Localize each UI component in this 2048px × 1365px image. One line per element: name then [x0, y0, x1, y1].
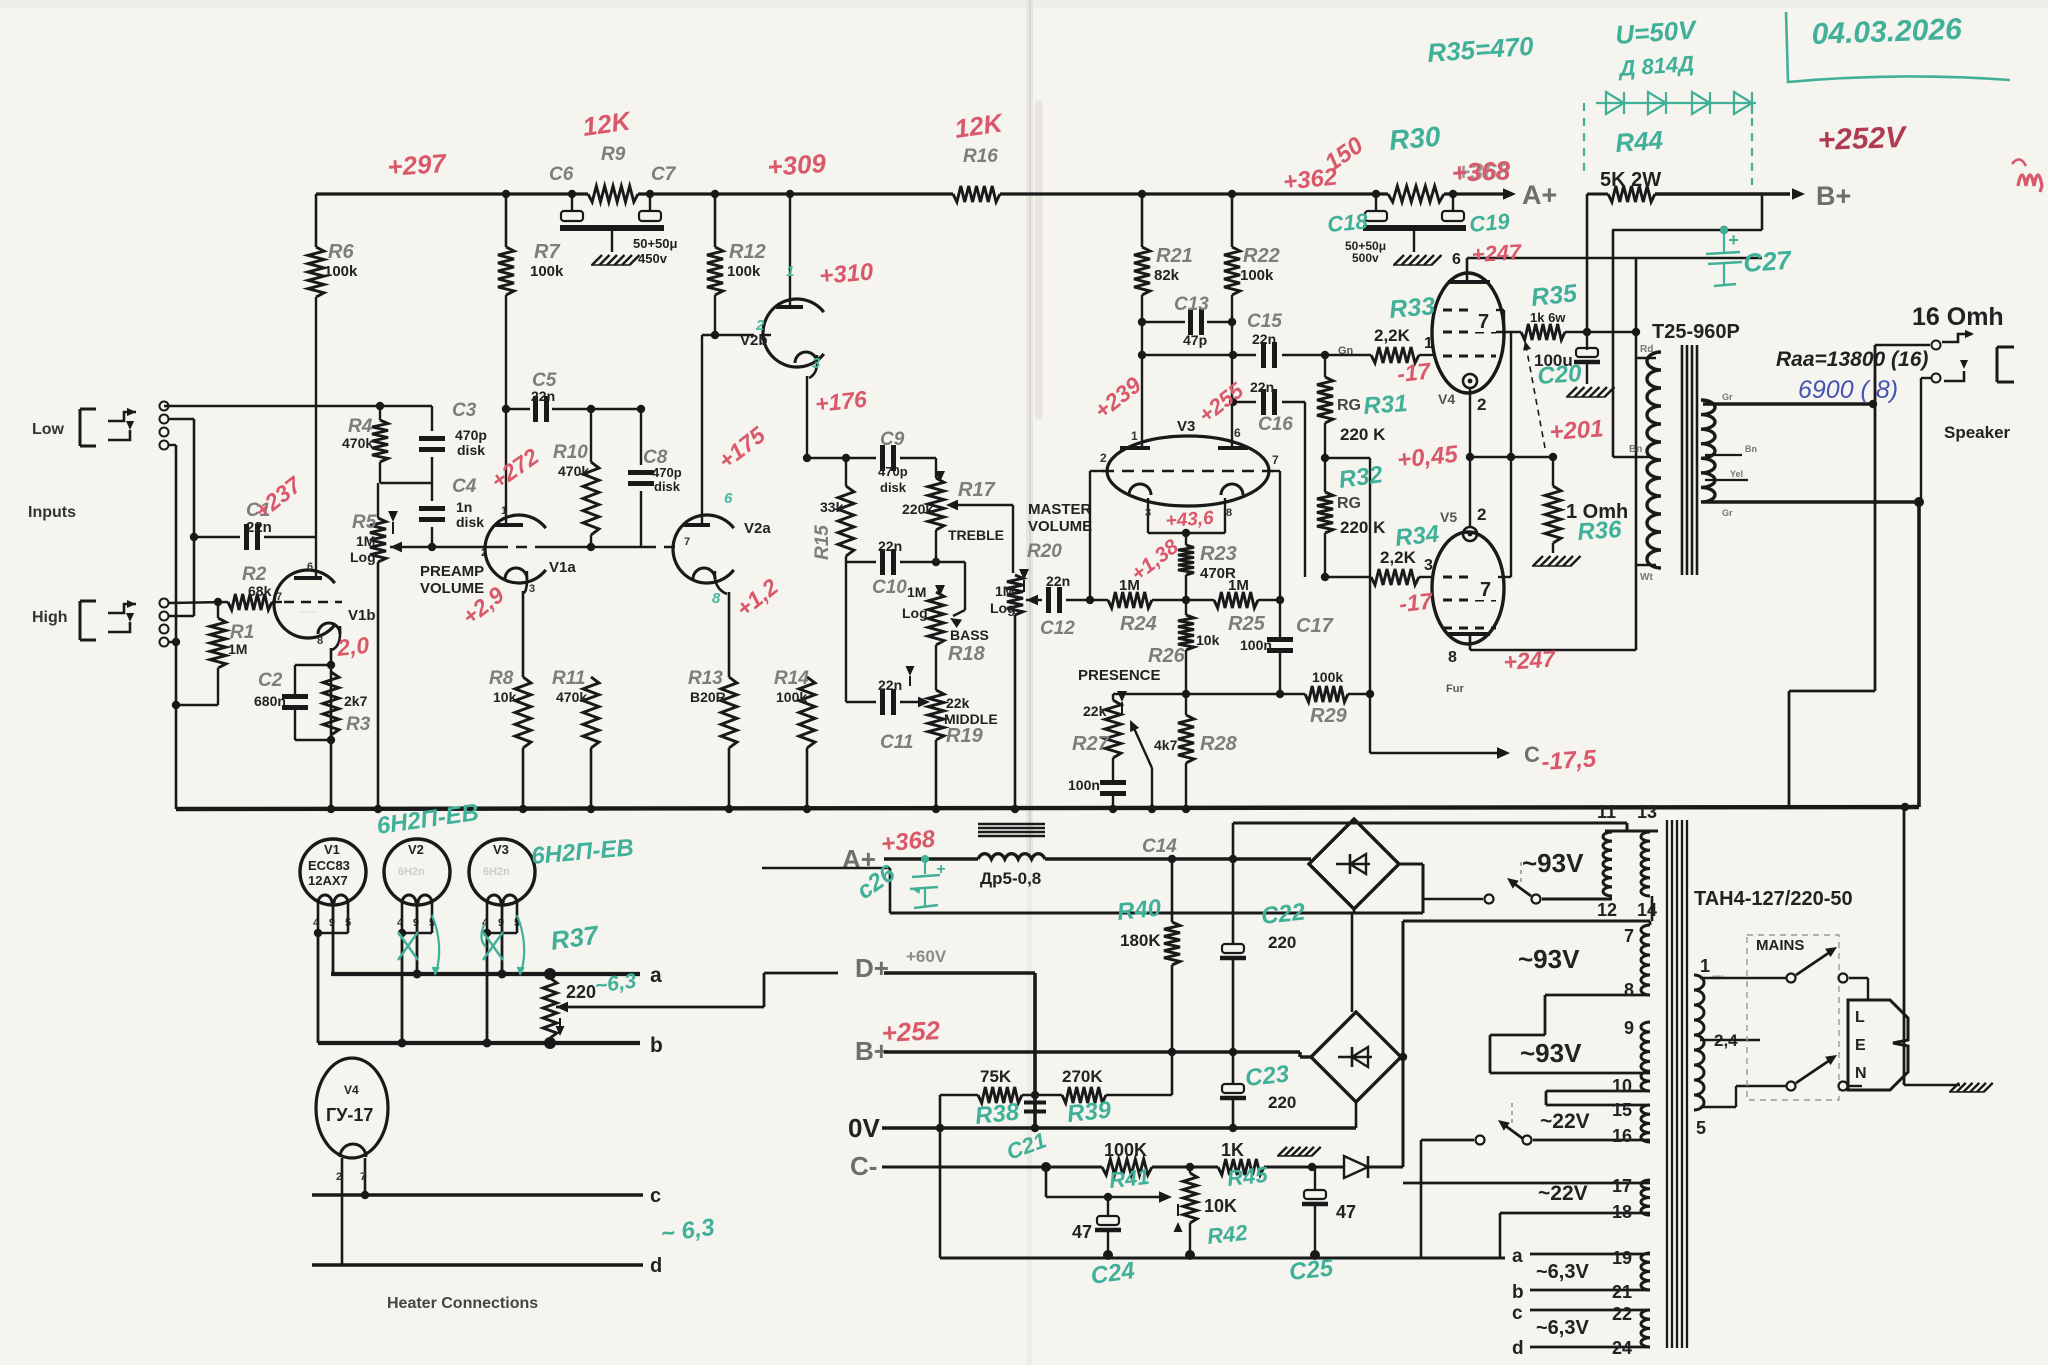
svg-text:22: 22	[1612, 1304, 1632, 1324]
svg-text:Speaker: Speaker	[1944, 423, 2011, 442]
svg-text:R17: R17	[958, 479, 996, 501]
svg-text:-17: -17	[1396, 358, 1433, 387]
svg-text:450v: 450v	[638, 251, 668, 266]
svg-text:PRESENCE: PRESENCE	[1078, 667, 1161, 684]
svg-text:MASTER: MASTER	[1028, 501, 1092, 518]
svg-text:22n: 22n	[1250, 379, 1274, 395]
svg-text:0V: 0V	[848, 1113, 880, 1143]
svg-text:Wt: Wt	[1640, 572, 1653, 583]
svg-text:22n: 22n	[1252, 331, 1276, 347]
svg-text:3: 3	[1424, 557, 1433, 574]
svg-text:22n: 22n	[1046, 573, 1070, 589]
svg-text:A+: A+	[1522, 180, 1557, 210]
svg-text:16: 16	[1612, 1126, 1632, 1146]
svg-text:1M: 1M	[995, 583, 1014, 599]
svg-text:+247: +247	[1471, 239, 1524, 267]
svg-text:24: 24	[1612, 1338, 1632, 1358]
svg-text:2: 2	[1477, 505, 1486, 524]
svg-text:C16: C16	[1258, 414, 1293, 435]
svg-text:100k: 100k	[324, 263, 358, 280]
svg-text:2,2K: 2,2K	[1374, 326, 1411, 345]
svg-text:R41: R41	[1108, 1164, 1151, 1193]
svg-text:R13: R13	[688, 668, 723, 689]
svg-text:R8: R8	[489, 668, 514, 689]
svg-text:100k: 100k	[1240, 267, 1274, 284]
svg-text:50+50μ: 50+50μ	[633, 236, 678, 251]
svg-text:R42: R42	[1206, 1220, 1250, 1249]
svg-text:1n: 1n	[456, 499, 472, 515]
svg-text:Raa=13800 (16): Raa=13800 (16)	[1776, 348, 1928, 371]
svg-text:-17: -17	[1398, 588, 1435, 617]
svg-text:11: 11	[1597, 802, 1616, 822]
svg-text:+297: +297	[386, 148, 448, 182]
svg-text:+201: +201	[1549, 415, 1605, 446]
svg-text:Gr: Gr	[1722, 508, 1733, 518]
svg-text:R2: R2	[242, 564, 267, 585]
svg-text:TAH4-127/220-50: TAH4-127/220-50	[1694, 888, 1853, 910]
svg-text:Др5-0,8: Др5-0,8	[980, 869, 1041, 888]
svg-text:C2: C2	[258, 670, 283, 691]
svg-text:75K: 75K	[980, 1067, 1012, 1086]
svg-text:V2: V2	[408, 842, 424, 857]
svg-text:V4: V4	[344, 1083, 359, 1097]
svg-text:19: 19	[1612, 1248, 1632, 1268]
svg-text:Д 814Д: Д 814Д	[1617, 51, 1695, 81]
svg-text:~93V: ~93V	[1522, 848, 1584, 878]
svg-text:C25: C25	[1288, 1254, 1335, 1286]
svg-text:C23: C23	[1244, 1060, 1291, 1092]
svg-text:8: 8	[317, 635, 323, 647]
svg-text:B+: B+	[1816, 181, 1851, 211]
svg-text:C12: C12	[1040, 618, 1075, 639]
svg-text:V1a: V1a	[549, 559, 576, 576]
svg-text:PREAMP: PREAMP	[420, 563, 484, 580]
svg-text:6: 6	[307, 561, 313, 573]
svg-text:2: 2	[336, 1171, 342, 1183]
svg-text:C: C	[1524, 742, 1540, 767]
svg-text:100k: 100k	[776, 689, 807, 705]
svg-text:6900 ( 8): 6900 ( 8)	[1798, 376, 1898, 404]
svg-text:C22: C22	[1260, 898, 1307, 930]
svg-text:1M: 1M	[356, 533, 375, 549]
svg-text:Fur: Fur	[1446, 683, 1464, 695]
svg-text:C17: C17	[1296, 615, 1334, 637]
svg-text:C27: C27	[1742, 245, 1793, 278]
svg-text:5K 2W: 5K 2W	[1600, 169, 1661, 191]
svg-text:22k: 22k	[946, 695, 970, 711]
svg-text:2: 2	[1100, 451, 1107, 465]
svg-text:C4: C4	[452, 476, 477, 497]
svg-text:+309: +309	[766, 148, 827, 182]
svg-text:d: d	[650, 1255, 662, 1277]
svg-text:+43,6: +43,6	[1165, 508, 1215, 532]
svg-text:+60V: +60V	[906, 947, 947, 966]
svg-text:C20: C20	[1537, 360, 1583, 390]
svg-text:C9: C9	[880, 429, 905, 450]
svg-text:R44: R44	[1614, 125, 1664, 158]
svg-text:17: 17	[1612, 1176, 1632, 1196]
svg-text:R24: R24	[1120, 613, 1157, 635]
svg-text:47: 47	[1072, 1222, 1092, 1242]
svg-text:BASS: BASS	[950, 627, 989, 643]
svg-text:13: 13	[1637, 802, 1657, 822]
svg-text:RG: RG	[1337, 397, 1361, 414]
svg-text:Log: Log	[902, 605, 928, 621]
svg-text:8: 8	[1448, 649, 1457, 666]
svg-text:C13: C13	[1174, 294, 1209, 315]
svg-text:R33: R33	[1388, 292, 1436, 324]
svg-text:R30: R30	[1388, 121, 1442, 156]
svg-text:R1: R1	[230, 622, 254, 643]
svg-text:R25: R25	[1228, 613, 1266, 635]
svg-text:D+: D+	[855, 953, 889, 983]
svg-text:+368: +368	[1451, 155, 1512, 188]
svg-text:R23: R23	[1200, 543, 1237, 565]
svg-text:22n: 22n	[531, 388, 555, 404]
svg-text:R20: R20	[1027, 541, 1062, 562]
svg-text:R29: R29	[1310, 705, 1348, 727]
svg-text:R10: R10	[553, 442, 588, 463]
svg-text:100n: 100n	[1240, 637, 1272, 653]
svg-text:470k: 470k	[558, 463, 589, 479]
svg-text:220 K: 220 K	[1340, 518, 1386, 537]
svg-text:470p: 470p	[652, 465, 682, 480]
svg-text:1M: 1M	[1228, 577, 1249, 594]
svg-text:R45: R45	[1226, 1162, 1270, 1191]
svg-text:6: 6	[1452, 251, 1461, 268]
svg-text:220: 220	[566, 982, 596, 1002]
svg-text:+: +	[936, 861, 945, 878]
svg-text:3: 3	[529, 583, 535, 595]
svg-text:6: 6	[724, 490, 733, 507]
svg-text:T25-960P: T25-960P	[1652, 321, 1740, 343]
svg-text:12: 12	[1597, 900, 1617, 920]
svg-text:disk: disk	[457, 442, 485, 458]
svg-text:disk: disk	[880, 480, 907, 495]
svg-text:C10: C10	[872, 577, 907, 598]
svg-text:C6: C6	[549, 164, 574, 185]
svg-text:R15: R15	[812, 525, 833, 560]
svg-text:B20R: B20R	[690, 689, 726, 705]
svg-text:R31: R31	[1363, 390, 1409, 420]
svg-text:Gr: Gr	[1722, 392, 1733, 402]
svg-text:68k: 68k	[248, 583, 272, 599]
svg-text:1K: 1K	[1221, 1140, 1244, 1160]
svg-text:R39: R39	[1066, 1096, 1113, 1128]
svg-text:47p: 47p	[1183, 332, 1207, 348]
svg-text:6H2n: 6H2n	[398, 866, 425, 878]
svg-text:V3: V3	[493, 842, 509, 857]
svg-text:RG: RG	[1337, 495, 1361, 512]
svg-text:Heater Connections: Heater Connections	[387, 1295, 538, 1312]
svg-text:R9: R9	[601, 144, 626, 165]
svg-text:470k: 470k	[556, 689, 587, 705]
svg-text:R27: R27	[1072, 733, 1110, 755]
svg-text:R19: R19	[946, 725, 984, 747]
svg-text:15: 15	[1612, 1100, 1632, 1120]
svg-text:22n: 22n	[878, 538, 902, 554]
svg-text:disk: disk	[456, 514, 484, 530]
svg-text:+368: +368	[880, 825, 937, 858]
svg-text:1M: 1M	[228, 641, 247, 657]
svg-text:7: 7	[276, 591, 282, 603]
svg-text:470p: 470p	[878, 464, 908, 479]
svg-text:R3: R3	[346, 714, 371, 735]
svg-text:R14: R14	[774, 668, 809, 689]
svg-text:V2b: V2b	[740, 332, 768, 349]
svg-text:TREBLE: TREBLE	[948, 527, 1004, 543]
svg-text:V1: V1	[324, 842, 340, 857]
svg-text:10: 10	[1612, 1076, 1632, 1096]
svg-text:R36: R36	[1577, 516, 1623, 546]
svg-text:7: 7	[1624, 926, 1634, 946]
svg-text:2: 2	[755, 317, 765, 334]
svg-text:R40: R40	[1116, 894, 1163, 926]
svg-text:R4: R4	[348, 416, 373, 437]
svg-text:680n: 680n	[254, 693, 286, 709]
svg-text:V4: V4	[1438, 391, 1455, 407]
svg-text:R11: R11	[552, 668, 585, 689]
svg-text:1: 1	[786, 263, 794, 280]
svg-text:100k: 100k	[530, 263, 564, 280]
svg-text:6H2n: 6H2n	[483, 866, 510, 878]
svg-text:d: d	[1512, 1338, 1524, 1359]
svg-text:220k: 220k	[902, 501, 933, 517]
svg-text:04.03.2026: 04.03.2026	[1811, 13, 1963, 51]
svg-text:C19: C19	[1468, 208, 1511, 236]
svg-text:+310: +310	[818, 258, 875, 290]
svg-text:7: 7	[684, 536, 690, 548]
svg-text:C18: C18	[1326, 208, 1369, 236]
svg-text:2: 2	[1477, 395, 1486, 414]
svg-text:C-: C-	[850, 1151, 877, 1181]
svg-text:Bn: Bn	[1629, 444, 1642, 455]
svg-text:180K: 180K	[1120, 931, 1161, 950]
svg-text:16 Omh: 16 Omh	[1912, 303, 2004, 331]
svg-text:U=50V: U=50V	[1614, 14, 1699, 50]
svg-text:C7: C7	[651, 164, 677, 185]
svg-text:C14: C14	[1142, 836, 1177, 857]
svg-text:3: 3	[1145, 507, 1151, 519]
svg-text:4k7: 4k7	[1154, 737, 1178, 753]
svg-text:100n: 100n	[1068, 777, 1100, 793]
svg-text:100k: 100k	[1312, 669, 1343, 685]
svg-text:+247: +247	[1503, 645, 1558, 675]
svg-text:disk: disk	[654, 479, 681, 494]
svg-text:R38: R38	[974, 1098, 1021, 1130]
svg-text:8: 8	[1624, 980, 1634, 1000]
svg-text:470k: 470k	[342, 435, 373, 451]
svg-text:22n: 22n	[878, 677, 902, 693]
svg-text:a: a	[1512, 1246, 1523, 1267]
svg-text:12AX7: 12AX7	[308, 873, 348, 888]
svg-text:1: 1	[501, 505, 507, 517]
svg-text:220: 220	[1268, 1093, 1296, 1112]
svg-text:9: 9	[1624, 1018, 1634, 1038]
svg-text:7: 7	[360, 1171, 366, 1183]
svg-text:R28: R28	[1200, 733, 1238, 755]
svg-text:220: 220	[1268, 933, 1296, 952]
svg-text:~22V: ~22V	[1540, 1110, 1590, 1133]
svg-text:2k7: 2k7	[344, 693, 368, 709]
svg-text:R5: R5	[352, 512, 377, 533]
svg-text:MAINS: MAINS	[1756, 937, 1804, 954]
svg-text:+: +	[1728, 230, 1739, 250]
svg-text:C11: C11	[880, 732, 913, 753]
svg-text:R7: R7	[534, 241, 560, 263]
svg-text:21: 21	[1612, 1282, 1632, 1302]
svg-text:High: High	[32, 609, 68, 626]
svg-text:R22: R22	[1243, 245, 1280, 267]
svg-text:ГУ-17: ГУ-17	[326, 1105, 373, 1125]
svg-text:a: a	[650, 964, 662, 987]
svg-text:8: 8	[1226, 507, 1232, 519]
svg-text:6: 6	[1234, 426, 1241, 440]
svg-text:1k 6w: 1k 6w	[1530, 310, 1566, 325]
svg-text:R21: R21	[1156, 245, 1193, 267]
svg-text:b: b	[1512, 1282, 1524, 1303]
svg-text:8: 8	[712, 590, 721, 607]
svg-text:10K: 10K	[1204, 1196, 1237, 1216]
svg-text:3: 3	[812, 355, 821, 372]
svg-text:VOLUME: VOLUME	[420, 580, 484, 597]
svg-text:7: 7	[1272, 453, 1279, 467]
svg-text:+252V: +252V	[1817, 121, 1909, 157]
svg-text:R6: R6	[328, 241, 354, 263]
svg-text:V2a: V2a	[744, 520, 771, 537]
svg-text:Yel: Yel	[1730, 469, 1743, 479]
svg-text:1: 1	[1131, 429, 1138, 443]
svg-text:100k: 100k	[727, 263, 761, 280]
svg-text:220 K: 220 K	[1340, 425, 1386, 444]
svg-text:ECC83: ECC83	[308, 858, 350, 873]
svg-text:Log: Log	[990, 600, 1016, 616]
svg-text:R35: R35	[1530, 279, 1580, 312]
svg-text:R18: R18	[948, 643, 986, 665]
svg-text:10k: 10k	[493, 689, 517, 705]
svg-text:VOLUME: VOLUME	[1028, 518, 1092, 535]
svg-text:C3: C3	[452, 400, 477, 421]
svg-text:V3: V3	[1177, 418, 1195, 435]
svg-text:-17,5: -17,5	[1541, 745, 1598, 776]
svg-text:R34: R34	[1394, 521, 1441, 552]
svg-text:500v: 500v	[1352, 251, 1379, 265]
svg-text:47: 47	[1336, 1202, 1356, 1222]
svg-text:270K: 270K	[1062, 1067, 1103, 1086]
svg-text:+176: +176	[814, 386, 868, 417]
svg-text:~93V: ~93V	[1520, 1038, 1582, 1068]
svg-text:14: 14	[1637, 900, 1657, 920]
svg-text:1: 1	[1700, 956, 1710, 976]
svg-text:E: E	[1855, 1037, 1866, 1054]
svg-text:R26: R26	[1148, 645, 1186, 667]
svg-text:R16: R16	[963, 146, 998, 167]
svg-text:b: b	[650, 1034, 663, 1057]
svg-text:2,0: 2,0	[335, 632, 371, 661]
svg-text:L: L	[1855, 1009, 1865, 1026]
svg-text:22k: 22k	[1083, 703, 1107, 719]
svg-text:~6,3V: ~6,3V	[1536, 1261, 1589, 1283]
svg-text:7: 7	[1478, 311, 1489, 333]
svg-text:N: N	[1855, 1065, 1867, 1082]
svg-text:c: c	[1512, 1303, 1523, 1324]
svg-text:~22V: ~22V	[1538, 1182, 1588, 1205]
svg-text:V1b: V1b	[348, 607, 376, 624]
svg-text:+252: +252	[881, 1015, 942, 1048]
svg-text:Log: Log	[350, 549, 376, 565]
svg-text:7: 7	[1480, 579, 1491, 601]
svg-text:Inputs: Inputs	[28, 504, 76, 521]
svg-text:~93V: ~93V	[1518, 944, 1580, 974]
svg-text:100K: 100K	[1104, 1140, 1147, 1160]
svg-text:82k: 82k	[1154, 267, 1180, 284]
svg-text:c: c	[650, 1185, 661, 1207]
svg-text:1M: 1M	[907, 584, 926, 600]
svg-text:R12: R12	[729, 241, 766, 263]
svg-text:~6,3V: ~6,3V	[1536, 1317, 1589, 1339]
svg-text:Low: Low	[32, 421, 65, 438]
svg-text:10k: 10k	[1196, 632, 1220, 648]
svg-text:470p: 470p	[455, 427, 487, 443]
svg-text:18: 18	[1612, 1202, 1632, 1222]
svg-text:V5: V5	[1440, 509, 1457, 525]
svg-text:5: 5	[1696, 1118, 1706, 1138]
svg-text:33k: 33k	[820, 499, 844, 515]
svg-text:Bn: Bn	[1745, 444, 1757, 454]
svg-text:C15: C15	[1247, 311, 1282, 332]
